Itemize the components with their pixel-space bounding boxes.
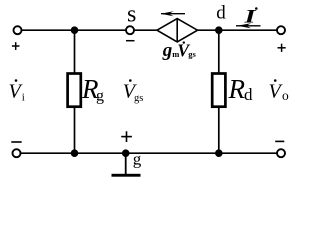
resistor Rg	[68, 74, 104, 107]
current arrow I	[236, 7, 261, 29]
label Vgs	[123, 79, 144, 104]
label Vo	[269, 79, 290, 103]
minus under s	[126, 40, 135, 42]
terminal s (open circle)	[126, 26, 134, 34]
svg-text:d: d	[216, 3, 226, 24]
wire bottom rail	[17, 152, 282, 154]
node s label	[127, 2, 136, 28]
svg-text:i: i	[22, 91, 25, 103]
svg-text:g: g	[133, 150, 142, 169]
minus bottom-right	[275, 140, 284, 142]
node dot top of Rg	[71, 26, 79, 34]
arrow above source (current direction)	[161, 11, 186, 16]
wire left branch (Rg)	[74, 30, 76, 153]
input terminal top-left	[14, 26, 22, 34]
svg-text:o: o	[282, 88, 289, 103]
input terminal bottom-left	[13, 149, 21, 157]
label gmVgs	[162, 40, 197, 61]
resistor Rd	[212, 74, 253, 107]
node d dot	[215, 26, 223, 34]
ground	[112, 153, 141, 177]
svg-text:gs: gs	[188, 49, 196, 59]
plus top-right	[278, 44, 286, 52]
svg-text:d: d	[244, 85, 253, 104]
output terminal bottom-right	[277, 149, 285, 157]
svg-text:g: g	[162, 40, 173, 61]
node dot bottom of Rd	[215, 149, 223, 157]
wire top rail	[18, 29, 282, 31]
node d label	[216, 3, 226, 24]
node g label	[133, 150, 142, 169]
minus bottom-left	[11, 141, 21, 143]
svg-text:R: R	[228, 74, 246, 104]
svg-text:s: s	[127, 2, 136, 28]
svg-text:g: g	[96, 88, 104, 105]
wire right branch (Rd)	[218, 30, 220, 153]
node g dot	[122, 149, 130, 157]
label Vi	[9, 79, 25, 103]
plus mid (Vgs polarity)	[121, 131, 132, 142]
svg-text:gs: gs	[134, 93, 143, 104]
node dot bottom of Rg	[71, 149, 79, 157]
svg-text:I: I	[243, 7, 256, 28]
controlled current source gmVgs (diamond)	[157, 19, 198, 42]
plus top-left	[12, 42, 20, 50]
output terminal top-right	[277, 26, 285, 34]
